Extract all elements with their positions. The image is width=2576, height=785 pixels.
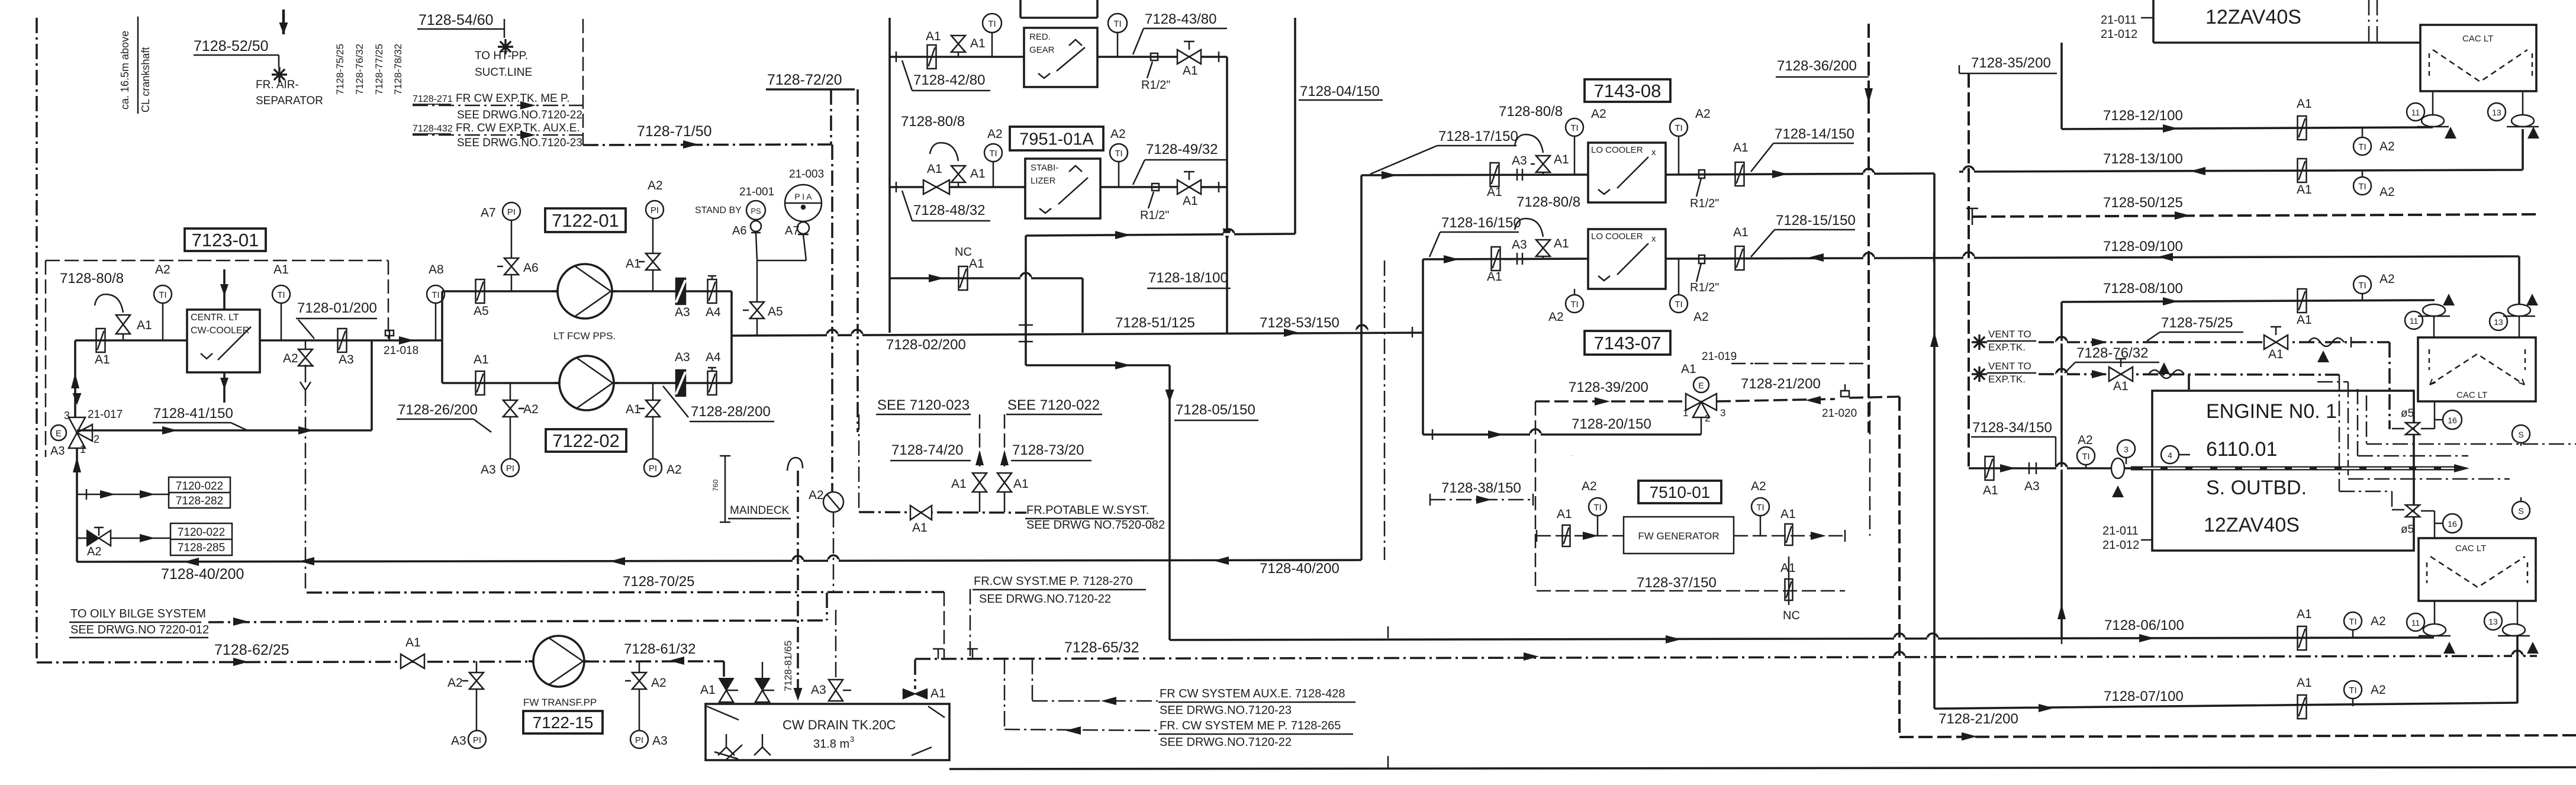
svg-text:A3: A3 [339,353,354,366]
svg-text:21-011: 21-011 [2102,525,2139,538]
svg-text:CAC LT: CAC LT [2456,390,2487,400]
svg-text:A2: A2 [1591,107,1606,121]
svg-text:A1: A1 [626,403,641,416]
svg-text:7128-80/8: 7128-80/8 [901,114,965,130]
svg-text:PI: PI [506,464,514,474]
svg-text:A1: A1 [951,477,967,491]
svg-text:7128-282: 7128-282 [176,495,223,507]
svg-text:2: 2 [1705,413,1710,424]
svg-text:A3: A3 [675,305,690,319]
svg-text:7128-02/200: 7128-02/200 [886,337,966,353]
svg-text:VENT TO: VENT TO [1988,329,2031,340]
svg-text:SEE DRWG.NO.7120-22: SEE DRWG.NO.7120-22 [1160,736,1292,749]
svg-text:7128-43/80: 7128-43/80 [1145,11,1216,27]
svg-text:EXP.TK.: EXP.TK. [1988,342,2026,353]
svg-text:FR. CW EXP.TK. AUX.E.: FR. CW EXP.TK. AUX.E. [456,122,580,134]
svg-text:A2: A2 [1693,310,1709,324]
svg-text:21-017: 21-017 [88,408,123,421]
svg-text:LO COOLER: LO COOLER [1591,231,1643,242]
svg-text:A6: A6 [523,261,539,275]
svg-text:1: 1 [1683,407,1688,419]
svg-text:A3: A3 [2024,480,2040,493]
svg-text:A1: A1 [1487,185,1502,199]
svg-text:7128-09/100: 7128-09/100 [2103,239,2183,255]
svg-text:LT FCW PPS.: LT FCW PPS. [553,330,616,342]
svg-text:A2: A2 [87,545,101,558]
svg-text:x: x [1651,234,1656,244]
svg-text:7128-48/32: 7128-48/32 [913,202,985,218]
svg-text:7128-18/100: 7128-18/100 [1148,270,1228,286]
svg-text:7128-51/125: 7128-51/125 [1115,315,1195,331]
svg-text:A1: A1 [1983,484,1998,497]
svg-text:A3: A3 [1512,238,1527,252]
svg-text:A1: A1 [2297,183,2312,197]
svg-text:FR CW EXP.TK. ME P.: FR CW EXP.TK. ME P. [456,92,570,105]
svg-text:7122-15: 7122-15 [533,713,594,732]
svg-text:7128-81/65: 7128-81/65 [783,641,794,691]
svg-text:TO OILY BILGE SYSTEM: TO OILY BILGE SYSTEM [70,607,206,620]
svg-text:x: x [1651,147,1656,157]
svg-text:CW-COOLER: CW-COOLER [191,326,249,336]
svg-text:P I A: P I A [794,192,812,201]
svg-text:A4: A4 [706,350,721,364]
svg-text:TI: TI [2358,182,2366,192]
svg-text:13: 13 [2492,108,2501,117]
svg-text:CENTR. LT: CENTR. LT [191,313,239,323]
svg-text:SEE DRWG.NO.7120-22: SEE DRWG.NO.7120-22 [457,109,582,121]
svg-text:GEAR: GEAR [1029,45,1055,55]
svg-text:11: 11 [2410,316,2419,326]
svg-text:7128-285: 7128-285 [178,542,225,554]
svg-text:7128-04/150: 7128-04/150 [1300,83,1380,99]
svg-text:TI: TI [432,290,439,300]
svg-text:11: 11 [2411,108,2420,117]
svg-text:A5: A5 [768,305,783,318]
svg-text:A1: A1 [1780,507,1796,521]
svg-text:TI: TI [1756,503,1764,513]
svg-text:A1: A1 [1780,561,1796,575]
svg-text:3: 3 [2124,445,2129,454]
svg-text:A1: A1 [2268,348,2284,361]
svg-text:21-020: 21-020 [1822,407,1857,420]
svg-text:13: 13 [2494,317,2503,327]
svg-text:TI: TI [277,290,285,300]
svg-text:ø5: ø5 [2401,523,2414,536]
svg-text:21-001: 21-001 [739,186,774,198]
svg-text:A1: A1 [1183,64,1198,78]
svg-text:A3: A3 [1512,154,1527,168]
svg-text:TI: TI [988,19,996,29]
svg-text:4: 4 [2168,451,2172,460]
svg-text:A1: A1 [1557,507,1572,521]
svg-text:A1: A1 [926,30,941,43]
svg-text:A1: A1 [137,318,152,332]
svg-text:CAC LT: CAC LT [2462,34,2493,44]
svg-text:CAC LT: CAC LT [2455,543,2486,554]
svg-text:FW GENERATOR: FW GENERATOR [1638,530,1719,542]
svg-text:E: E [1698,381,1704,390]
svg-text:LIZER: LIZER [1031,176,1056,186]
svg-text:SEE DRWG.NO.7120-22: SEE DRWG.NO.7120-22 [979,593,1111,606]
svg-text:A2: A2 [2078,433,2093,447]
svg-text:A1: A1 [1554,237,1569,250]
svg-text:16: 16 [2448,416,2457,425]
svg-text:NC: NC [1783,609,1800,622]
svg-text:7128-37/150: 7128-37/150 [1637,575,1717,591]
svg-text:7128-80/8: 7128-80/8 [1516,194,1580,210]
svg-text:7128-17/150: 7128-17/150 [1438,128,1518,144]
svg-text:ENGINE N0. 1: ENGINE N0. 1 [2206,400,2337,423]
svg-text:A2: A2 [283,352,298,365]
svg-text:A5: A5 [474,304,489,318]
svg-text:7128-07/100: 7128-07/100 [2104,689,2184,704]
svg-text:TI: TI [1675,123,1682,133]
svg-text:TO HT-PP.: TO HT-PP. [475,50,528,62]
svg-text:A1: A1 [1554,153,1569,166]
svg-text:MAINDECK: MAINDECK [730,504,790,517]
svg-text:SEE 7120-023: SEE 7120-023 [877,397,970,413]
svg-text:7128-36/200: 7128-36/200 [1777,58,1857,74]
svg-text:TI: TI [1113,19,1121,29]
svg-text:FW TRANSF.PP: FW TRANSF.PP [523,697,597,708]
svg-text:A1: A1 [930,687,946,700]
svg-text:7128-06/100: 7128-06/100 [2104,617,2184,633]
svg-text:7128-01/200: 7128-01/200 [297,300,377,316]
svg-text:7128-80/8: 7128-80/8 [60,271,124,287]
svg-text:7128-71/50: 7128-71/50 [637,123,712,140]
svg-text:A1: A1 [2297,313,2312,327]
svg-text:3: 3 [64,410,70,422]
svg-text:A3: A3 [50,445,65,458]
svg-text:A1: A1 [95,353,110,366]
svg-text:A7: A7 [481,206,496,220]
svg-text:A1: A1 [1013,477,1029,491]
svg-text:A3: A3 [675,350,690,364]
svg-text:7143-07: 7143-07 [1594,333,1661,353]
svg-text:A2: A2 [447,676,463,690]
svg-text:7128-13/100: 7128-13/100 [2103,151,2183,167]
svg-text:7123-01: 7123-01 [192,230,259,250]
svg-text:A1: A1 [474,353,489,366]
svg-text:21-018: 21-018 [384,345,418,357]
svg-text:A1: A1 [700,683,716,697]
svg-text:7128-61/32: 7128-61/32 [624,641,695,657]
svg-text:7128-28/200: 7128-28/200 [691,404,771,420]
svg-text:7128-15/150: 7128-15/150 [1776,213,1856,229]
svg-text:21-011: 21-011 [2101,14,2137,27]
svg-text:7951-01A: 7951-01A [1019,130,1094,149]
svg-text:SEE DRWG.NO 7220-012: SEE DRWG.NO 7220-012 [70,623,209,636]
svg-text:TI: TI [2349,617,2356,627]
svg-text:A1: A1 [626,257,641,271]
svg-text:31.8 m: 31.8 m [813,738,849,751]
svg-text:7122-02: 7122-02 [552,430,620,451]
svg-text:TI: TI [2358,281,2366,291]
svg-text:PI: PI [473,735,481,745]
svg-text:A2: A2 [155,263,170,276]
svg-text:7120-022: 7120-022 [178,526,225,539]
svg-text:A3: A3 [481,463,496,477]
svg-text:7128-40/200: 7128-40/200 [1260,561,1339,577]
svg-text:SEE DRWG NO.7520-082: SEE DRWG NO.7520-082 [1026,519,1165,532]
svg-text:A3: A3 [811,683,826,697]
svg-text:PI: PI [635,735,643,745]
svg-text:A1: A1 [912,521,928,535]
svg-text:A2: A2 [1751,480,1766,493]
svg-text:7128-34/150: 7128-34/150 [1972,420,2052,436]
svg-text:A2: A2 [1582,480,1597,493]
svg-text:A1: A1 [1183,194,1198,208]
svg-text:7128-40/200: 7128-40/200 [161,566,244,583]
svg-text:A4: A4 [706,305,721,319]
svg-text:A2: A2 [2379,185,2395,199]
svg-text:A2: A2 [523,403,539,416]
svg-text:TI: TI [1570,123,1578,133]
svg-text:7120-022: 7120-022 [176,480,223,493]
svg-text:7128-50/125: 7128-50/125 [2103,195,2183,211]
svg-text:A1: A1 [2297,676,2312,690]
svg-text:A2: A2 [1110,127,1126,141]
svg-text:7510-01: 7510-01 [1650,483,1711,501]
svg-text:FR.CW SYST.ME P. 7128-270: FR.CW SYST.ME P. 7128-270 [974,575,1133,588]
svg-text:EXP.TK.: EXP.TK. [1988,374,2026,385]
svg-text:7128-41/150: 7128-41/150 [153,406,233,422]
svg-text:TI: TI [159,290,166,300]
svg-text:7128-271: 7128-271 [413,94,453,104]
svg-text:VENT TO: VENT TO [1988,361,2031,372]
svg-text:A6: A6 [732,224,746,237]
svg-text:A2: A2 [666,463,682,477]
svg-text:TI: TI [1570,300,1578,310]
svg-text:7128-76/32: 7128-76/32 [354,44,365,95]
svg-text:7128-20/150: 7128-20/150 [1572,416,1651,432]
svg-text:A1: A1 [2113,379,2129,393]
svg-text:A1: A1 [2297,97,2312,111]
svg-text:STAND BY: STAND BY [695,205,742,215]
svg-text:A2: A2 [2371,615,2386,628]
svg-text:7128-35/200: 7128-35/200 [1971,55,2051,71]
svg-text:PI: PI [649,464,657,474]
svg-text:7128-80/8: 7128-80/8 [1499,104,1563,120]
svg-text:7128-77/25: 7128-77/25 [373,44,385,95]
svg-text:A1: A1 [970,167,986,181]
svg-text:ca. 16.5m above: ca. 16.5m above [119,31,131,110]
svg-text:LO COOLER: LO COOLER [1591,145,1643,155]
svg-text:TI: TI [1593,503,1601,513]
svg-text:FR. CW SYSTEM ME P. 7128-: FR. CW SYSTEM ME P. 7128-265 [1160,719,1341,732]
svg-text:PS: PS [751,207,761,215]
svg-text:A2: A2 [2379,140,2395,153]
svg-text:A2: A2 [809,488,824,502]
svg-text:7128-08/100: 7128-08/100 [2103,281,2183,297]
svg-text:A1: A1 [2297,607,2312,621]
svg-text:7128-21/200: 7128-21/200 [1939,711,2018,727]
svg-text:TI: TI [1675,300,1682,310]
svg-text:21-003: 21-003 [789,168,824,181]
svg-text:SEE 7120-022: SEE 7120-022 [1007,397,1100,413]
svg-text:7128-14/150: 7128-14/150 [1775,126,1854,142]
svg-text:12ZAV40S: 12ZAV40S [2205,6,2301,28]
svg-text:CL crankshaft: CL crankshaft [140,47,152,112]
svg-text:STABI-: STABI- [1031,163,1058,173]
svg-text:R1/2": R1/2" [1140,209,1169,222]
svg-text:FR.POTABLE W.SYST.: FR.POTABLE W.SYST. [1026,504,1149,517]
svg-text:7128-54/60: 7128-54/60 [418,12,494,28]
svg-text:TI: TI [2358,142,2366,152]
svg-text:A1: A1 [927,162,942,176]
svg-text:A1: A1 [1733,226,1749,239]
svg-text:A1: A1 [405,636,421,649]
svg-text:7128-05/150: 7128-05/150 [1176,402,1255,418]
svg-text:TI: TI [2082,452,2089,462]
svg-text:7128-65/32: 7128-65/32 [1064,639,1139,656]
svg-text:R1/2": R1/2" [1690,197,1719,210]
svg-text:TI: TI [989,149,997,159]
svg-text:7143-08: 7143-08 [1594,81,1661,101]
svg-text:7128-26/200: 7128-26/200 [398,402,478,418]
svg-text:PI: PI [507,207,516,217]
svg-text:7128-12/100: 7128-12/100 [2103,108,2183,124]
svg-text:SEE DRWG.NO.7120-23: SEE DRWG.NO.7120-23 [1160,704,1292,717]
svg-text:7128-78/32: 7128-78/32 [392,44,404,95]
svg-text:2: 2 [94,433,99,445]
svg-text:A2: A2 [1548,310,1564,324]
svg-text:7128-16/150: 7128-16/150 [1441,215,1521,231]
svg-text:7128-52/50: 7128-52/50 [194,38,269,54]
svg-text:7128-76/32: 7128-76/32 [2076,345,2148,361]
svg-text:A3: A3 [451,734,466,748]
svg-text:CW DRAIN TK.20C: CW DRAIN TK.20C [783,718,896,732]
svg-text:21-012: 21-012 [2102,539,2139,552]
svg-text:7128-75/25: 7128-75/25 [334,44,346,95]
svg-text:TI: TI [1115,149,1122,159]
svg-text:7122-01: 7122-01 [552,210,619,231]
svg-text:760: 760 [711,480,720,491]
svg-text:7128-72/20: 7128-72/20 [767,72,842,88]
svg-text:7128-21/200: 7128-21/200 [1741,376,1821,392]
svg-text:R1/2": R1/2" [1141,79,1170,92]
svg-text:7128-38/150: 7128-38/150 [1441,480,1521,496]
svg-text:12ZAV40S: 12ZAV40S [2204,514,2300,536]
svg-text:1: 1 [80,443,86,455]
svg-text:TI: TI [2349,686,2356,696]
svg-text:S: S [2518,430,2523,439]
svg-text:E: E [56,429,62,439]
svg-text:A8: A8 [429,263,444,276]
svg-text:7128-432: 7128-432 [413,124,453,134]
svg-text:13: 13 [2488,617,2498,626]
svg-text:A1: A1 [273,263,289,276]
svg-text:A1: A1 [1487,270,1502,284]
svg-text:A2: A2 [2379,272,2395,286]
svg-text:A2: A2 [648,179,663,192]
svg-text:SUCT.LINE: SUCT.LINE [475,66,532,79]
svg-text:7128-74/20: 7128-74/20 [891,442,963,458]
svg-text:6110.01: 6110.01 [2206,438,2277,461]
svg-text:7128-73/20: 7128-73/20 [1012,442,1084,458]
svg-text:RED.: RED. [1029,32,1051,42]
svg-text:A2: A2 [1695,107,1711,121]
svg-text:11: 11 [2411,618,2420,628]
svg-text:SEPARATOR: SEPARATOR [256,95,323,107]
svg-text:SEE DRWG.NO.7120-23: SEE DRWG.NO.7120-23 [457,137,582,149]
svg-text:FR CW SYSTEM AUX.E. 7128-4: FR CW SYSTEM AUX.E. 7128-428 [1160,687,1345,700]
svg-text:A7: A7 [785,224,799,237]
svg-text:A2: A2 [987,127,1003,141]
svg-text:S: S [2518,506,2523,516]
svg-text:A1: A1 [1733,141,1749,155]
svg-text:7128-70/25: 7128-70/25 [623,574,694,590]
svg-text:A2: A2 [2371,683,2386,697]
svg-text:A2: A2 [651,676,666,690]
svg-text:R1/2": R1/2" [1690,281,1719,294]
svg-text:7128-49/32: 7128-49/32 [1146,141,1218,157]
svg-text:A3: A3 [652,734,668,748]
svg-text:21-012: 21-012 [2101,28,2137,41]
svg-text:7128-42/80: 7128-42/80 [913,72,985,88]
svg-text:7.128-20/150: 7.128-20/150 [1570,455,1573,456]
svg-text:3: 3 [1720,407,1725,419]
svg-text:7128-39/200: 7128-39/200 [1569,379,1648,395]
svg-text:7128-75/25: 7128-75/25 [2161,315,2233,331]
svg-text:16: 16 [2448,519,2457,529]
svg-text:S. OUTBD.: S. OUTBD. [2206,477,2307,499]
svg-text:A1: A1 [969,257,984,271]
svg-text:21-019: 21-019 [1702,350,1737,363]
svg-text:7128-62/25: 7128-62/25 [214,642,289,658]
svg-text:FR. AIR-: FR. AIR- [256,79,299,91]
svg-text:ø5: ø5 [2401,407,2414,420]
svg-text:PI: PI [651,205,659,215]
svg-text:A1: A1 [1681,362,1696,376]
svg-text:7128-53/150: 7128-53/150 [1260,315,1339,331]
svg-text:A1: A1 [970,37,986,50]
svg-text:3: 3 [850,735,854,744]
